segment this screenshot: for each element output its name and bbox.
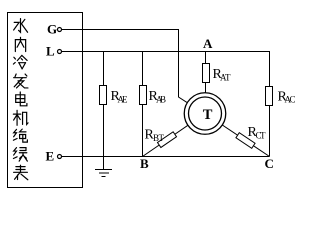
svg-text:AE: AE (118, 95, 129, 105)
svg-text:AB: AB (156, 95, 166, 105)
svg-text:BT: BT (153, 133, 165, 143)
svg-text:CT: CT (256, 131, 267, 141)
svg-text:L: L (46, 44, 55, 59)
svg-text:AT: AT (220, 73, 231, 83)
svg-text:B: B (140, 156, 149, 171)
svg-text:E: E (46, 149, 55, 164)
svg-text:G: G (47, 22, 57, 37)
svg-text:T: T (203, 107, 213, 123)
svg-text:AC: AC (285, 95, 296, 105)
svg-text:C: C (265, 156, 274, 171)
svg-text:A: A (203, 36, 213, 51)
